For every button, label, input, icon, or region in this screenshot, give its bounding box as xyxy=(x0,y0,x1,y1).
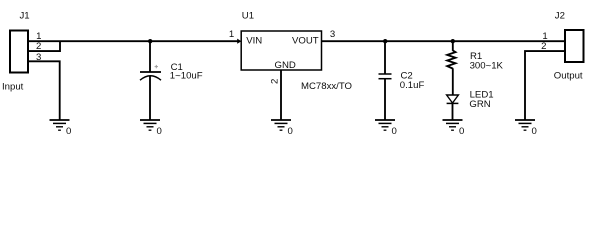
svg-text:VIN: VIN xyxy=(246,35,262,46)
svg-text:MC78xx/TO: MC78xx/TO xyxy=(301,81,352,92)
svg-text:0: 0 xyxy=(392,126,397,137)
svg-text:3: 3 xyxy=(330,29,335,40)
wire J2 pin2 to ground xyxy=(525,51,565,120)
svg-text:0: 0 xyxy=(459,126,464,137)
svg-text:U1: U1 xyxy=(242,11,254,22)
ground (LED1) xyxy=(443,120,465,137)
node junction at R1 xyxy=(451,39,455,43)
wire U1 GND pin to ground xyxy=(280,70,282,120)
regulator U1 xyxy=(241,11,352,93)
svg-text:300~1K: 300~1K xyxy=(470,60,504,71)
connector J2 xyxy=(554,11,584,82)
capacitor C1 xyxy=(140,41,203,120)
ground (C2) xyxy=(375,120,397,137)
svg-text:0: 0 xyxy=(288,126,293,137)
wire J1 pin2 xyxy=(28,41,60,52)
svg-text:Output: Output xyxy=(554,70,583,81)
node junction at C1 xyxy=(148,39,152,43)
ground (C1) xyxy=(140,120,162,137)
capacitor C2 xyxy=(379,41,425,120)
svg-text:0.1uF: 0.1uF xyxy=(400,80,425,91)
svg-text:J2: J2 xyxy=(555,11,565,22)
resistor R1 xyxy=(447,41,503,95)
svg-text:0: 0 xyxy=(157,126,162,137)
svg-text:1~10uF: 1~10uF xyxy=(170,70,203,81)
svg-text:0: 0 xyxy=(532,126,537,137)
node junction at C2 xyxy=(383,39,387,43)
svg-text:2: 2 xyxy=(541,41,546,52)
svg-text:1: 1 xyxy=(229,29,234,40)
svg-text:1: 1 xyxy=(36,31,41,42)
svg-text:VOUT: VOUT xyxy=(292,35,319,46)
ground (J1) xyxy=(50,120,72,137)
wire J1 pin3 to ground xyxy=(28,61,60,120)
wire U1 VOUT to J2 pin1 xyxy=(322,40,566,42)
ground (U1) xyxy=(271,120,293,137)
svg-text:J1: J1 xyxy=(20,11,30,22)
svg-text:0: 0 xyxy=(66,126,71,137)
ground (J2) xyxy=(515,120,537,137)
svg-text:Input: Input xyxy=(2,81,24,92)
svg-text:GRN: GRN xyxy=(469,99,490,110)
connector J1 xyxy=(2,11,30,93)
wire J1 pin1 to U1 VIN xyxy=(28,40,238,42)
svg-text:2: 2 xyxy=(269,79,280,84)
pin arrow into VIN xyxy=(237,39,241,44)
LED LED1 xyxy=(447,90,494,121)
svg-text:GND: GND xyxy=(275,60,296,71)
